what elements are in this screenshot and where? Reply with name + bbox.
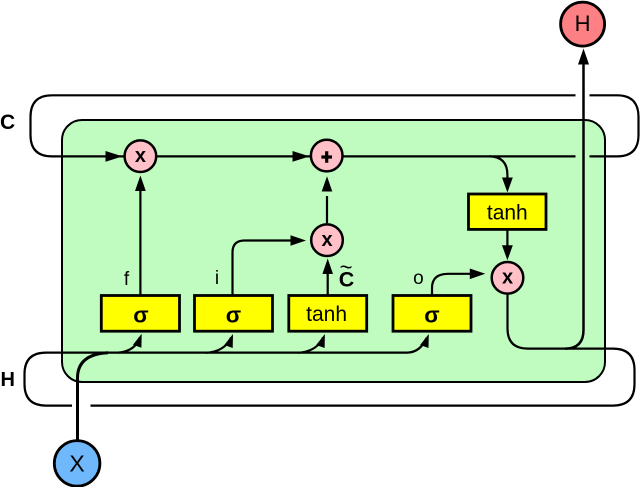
gate box tanh1 xyxy=(289,296,367,332)
svg-text:tanh: tanh xyxy=(487,202,528,225)
node C track right end xyxy=(590,95,639,156)
wire i gate to x2 xyxy=(233,241,291,296)
arrowhead into multiplier x1 xyxy=(106,151,123,162)
svg-text:tanh: tanh xyxy=(306,303,347,326)
svg-text:σ: σ xyxy=(226,303,241,328)
arrowhead into x2 from below xyxy=(322,259,333,275)
op circle x1 xyxy=(125,140,157,172)
arrowhead into tanh2 xyxy=(502,178,513,193)
wire tanh1 to x2 xyxy=(327,274,329,296)
wire gate arrow into sigma i xyxy=(206,338,231,353)
op circle adder xyxy=(311,140,343,172)
arrowhead into x2 from left xyxy=(291,235,307,246)
op circle x3 xyxy=(492,262,524,294)
arrowhead into H circle xyxy=(578,49,589,65)
svg-text:f: f xyxy=(124,269,130,290)
wire x2 to adder xyxy=(326,196,328,223)
arrowhead into adder from below xyxy=(322,176,333,191)
wire f gate to x1 xyxy=(139,190,141,296)
node H track right + output wire from x3 xyxy=(91,295,635,406)
svg-text:C: C xyxy=(0,111,15,134)
gate box sigma f xyxy=(101,296,179,332)
plus sign xyxy=(321,151,332,163)
svg-text:σ: σ xyxy=(133,303,148,328)
wire H output up-branch xyxy=(565,64,584,349)
wire X input xyxy=(78,353,109,441)
svg-text:H: H xyxy=(575,11,591,36)
arrowhead into sigma f xyxy=(133,334,142,348)
op circle x2 xyxy=(311,224,343,256)
svg-text:~: ~ xyxy=(340,255,353,280)
gate box sigma i xyxy=(195,296,273,332)
svg-text:x: x xyxy=(135,145,146,167)
wire gate arrow into tanh1 xyxy=(298,338,323,353)
arrowhead into x3 from left xyxy=(470,269,486,280)
svg-text:X: X xyxy=(69,451,84,477)
svg-text:o: o xyxy=(413,268,424,289)
arrowhead into adder xyxy=(293,151,310,162)
arrowhead into x3 from above xyxy=(502,245,513,260)
svg-text:x: x xyxy=(502,266,513,288)
arrowhead into sigma o xyxy=(420,334,429,348)
gate box sigma o xyxy=(393,296,471,332)
gate box tanh2 xyxy=(469,194,547,229)
wire gate arrow into sigma f xyxy=(118,338,140,353)
node X input circle xyxy=(54,441,100,487)
wire tanh2 to x3 xyxy=(506,229,508,245)
arrowhead into tanh1 xyxy=(316,334,325,348)
node C track left/top/bottom (cell-state pill, left part with gap at H wire) xyxy=(31,95,576,156)
wire branch from C line into tanh2 xyxy=(489,156,507,179)
node H output circle xyxy=(561,2,605,46)
arrowhead into sigma i xyxy=(224,334,233,348)
svg-text:H: H xyxy=(1,369,15,391)
svg-text:σ: σ xyxy=(424,303,439,328)
svg-text:i: i xyxy=(215,268,219,289)
LSTM cell body xyxy=(62,120,605,382)
node H track left + gates feed line xyxy=(25,338,427,406)
arrowhead into x1 from below xyxy=(135,176,146,192)
svg-text:x: x xyxy=(321,229,332,251)
wire o gate to x3 xyxy=(432,274,470,296)
